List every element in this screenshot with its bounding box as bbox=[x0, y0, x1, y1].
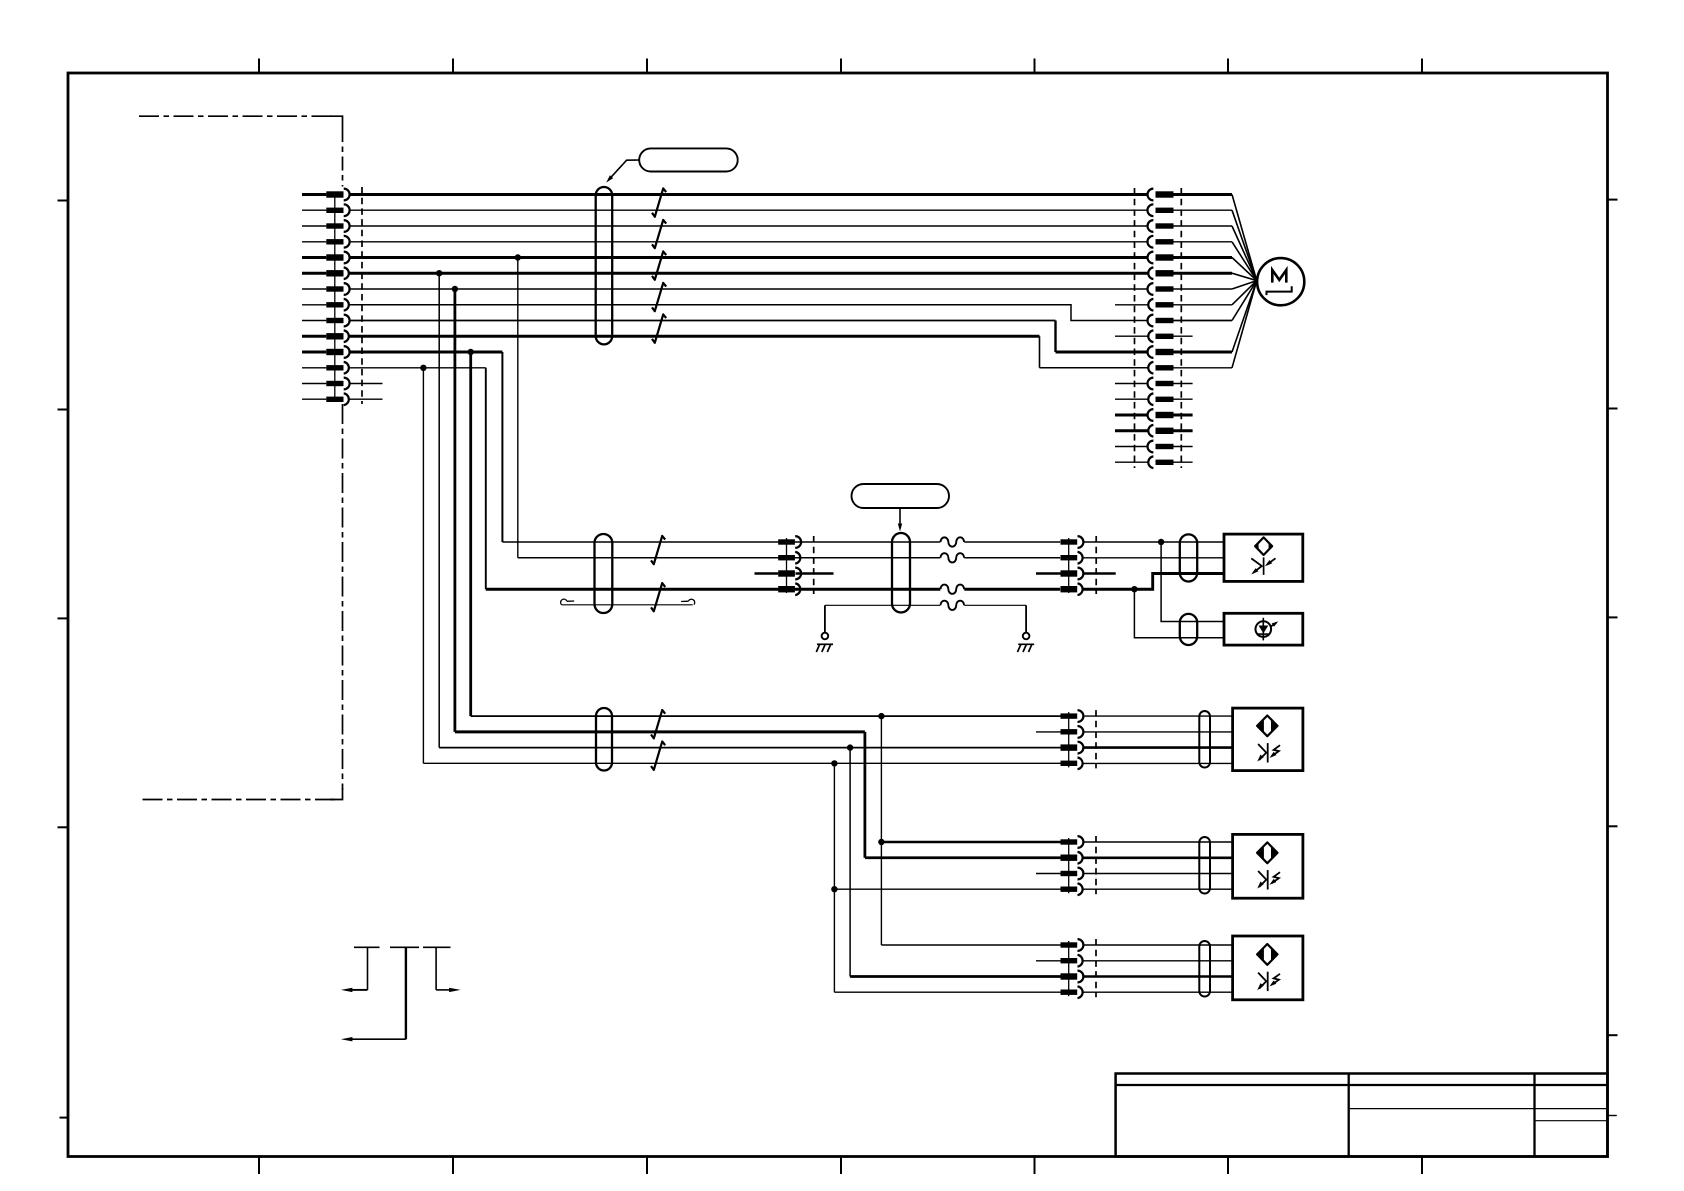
break mark top pair 1 bbox=[652, 188, 666, 216]
wire to sensor pin4 common bbox=[423, 762, 1060, 764]
CN2 spare pin stubs bbox=[1115, 305, 1193, 462]
wire CN1-3 to CN2-3 bbox=[349, 225, 1147, 227]
vertical drop x439 (net CN1-6) bbox=[438, 273, 440, 747]
junction CN4-4 branch bbox=[1131, 586, 1137, 592]
sensor PH1 (photoelectric sensor) bbox=[1233, 708, 1303, 771]
junction sensor1 pin3 branch bbox=[847, 744, 853, 750]
wire to SOL1 (-) horizontal bbox=[518, 557, 1060, 559]
wire to sensor3 pin1 bbox=[881, 944, 1060, 946]
stub CN1-13 bbox=[349, 383, 382, 385]
break mark top pair 3 bbox=[652, 251, 666, 279]
connector CN1 (enclosure side, 14 pins) bbox=[302, 187, 362, 405]
cable shield oval (bottom bundle) bbox=[596, 708, 612, 771]
CN3 pin3 stubs bbox=[755, 572, 779, 575]
sensor PH3 wires to box bbox=[1083, 945, 1232, 992]
stub CN1-14 bbox=[349, 398, 382, 400]
connector CN6 (sensor 2) bbox=[1061, 836, 1097, 895]
vertical drop x502 (net CN1-11 branch) bbox=[501, 352, 503, 542]
sensor PH1 cable oval bbox=[1199, 711, 1210, 768]
vertical drop x455 (net CN1-7) bbox=[453, 289, 456, 732]
wire to sensor2 pin4 bbox=[834, 888, 1060, 890]
sensor PH2 wires to box bbox=[1083, 842, 1232, 889]
wire to sensor1 pin3 bbox=[439, 747, 1060, 749]
enclosure boundary (dash-dot) bbox=[139, 116, 343, 799]
title block bbox=[1116, 1074, 1617, 1157]
vertical drop x881 (+V common) bbox=[880, 716, 882, 945]
cable shield oval (middle, right) bbox=[892, 533, 910, 613]
connector CN3 (4 pins) bbox=[778, 536, 814, 595]
cam timing symbol bbox=[341, 947, 461, 1041]
wire CN1-2 to CN2-2 bbox=[349, 209, 1147, 211]
balloon leader arrow bbox=[609, 160, 639, 180]
junction CN1-6 tap bbox=[436, 270, 442, 276]
label balloon (top cable) bbox=[639, 148, 738, 171]
break mark top pair 5 bbox=[652, 314, 666, 342]
connector CN4 (4 pins) bbox=[1061, 536, 1097, 595]
wire CN1-10 jog to CN2-12 bbox=[349, 335, 1039, 338]
sensor PH2 cable oval bbox=[1199, 837, 1210, 894]
wire CN1-8 jog to CN2-9 bbox=[349, 305, 1147, 321]
indicator box B2 (light emitter) bbox=[1224, 613, 1303, 645]
connector CN5 (sensor 1) spare stub bbox=[1036, 731, 1061, 733]
wire to sensor2 pin2 (thick) bbox=[455, 730, 865, 733]
break mark top pair 4 bbox=[652, 283, 666, 311]
cable shield oval (top bundle) bbox=[596, 187, 613, 344]
vertical drop x423 (net CN1-12) bbox=[422, 368, 424, 764]
wire to sensor3 pin4 bbox=[834, 991, 1060, 993]
cable shield oval (middle, left) bbox=[595, 534, 613, 613]
break mark middle pair 1 bbox=[651, 536, 665, 564]
wire CN1-12 horizontal bbox=[349, 367, 485, 369]
break mark bottom pair 1 bbox=[651, 710, 665, 738]
functional earth (right) bbox=[1025, 605, 1027, 632]
wavy break marks bbox=[941, 537, 965, 610]
junction on CN1-12 wire bbox=[420, 365, 426, 371]
sensor box B1 (retro-reflective sensor) bbox=[1224, 534, 1303, 581]
junction sensor2 pin4 bbox=[831, 886, 837, 892]
break mark bottom pair 2 bbox=[651, 742, 665, 770]
connector CN6 (sensor 2) spare stub bbox=[1036, 873, 1061, 875]
device cable oval (indicator) bbox=[1180, 614, 1197, 645]
sensor PH1 wires to box bbox=[1083, 716, 1232, 763]
junction CN1-7 tap bbox=[452, 286, 458, 292]
break mark top pair 2 bbox=[652, 220, 666, 248]
wire CN1-9 jog to CN2-11 bbox=[349, 320, 1055, 322]
shield drain with earth connections bbox=[825, 604, 1026, 606]
label balloon (middle cable) bbox=[852, 484, 950, 508]
junction CN4-1 branch bbox=[1158, 539, 1164, 545]
wire CN1-6 to CN2-6 bbox=[349, 272, 1147, 275]
vertical drop x518 (net CN1-5) bbox=[517, 258, 519, 558]
junction CN1-5 tap bbox=[515, 254, 521, 260]
wire CN1-7 to CN2-7 bbox=[349, 288, 1147, 290]
vertical drop x864 (thick) bbox=[864, 732, 867, 858]
sensor PH3 cable oval bbox=[1199, 941, 1210, 997]
vertical drop x471 (net CN1-11) bbox=[469, 352, 472, 716]
wire to sensor3 pin3 (thick) bbox=[850, 975, 1060, 978]
functional earth (left) bbox=[824, 605, 826, 632]
wire CN4-1 to valve box bbox=[1083, 541, 1224, 543]
wire CN1-4 to CN2-4 bbox=[349, 241, 1147, 243]
wire CN1-11 horizontal bbox=[349, 351, 502, 354]
connector CN7 (sensor 3) bbox=[1061, 939, 1097, 998]
junction sensor2 pin1 bbox=[878, 839, 884, 845]
wire to sensor1 pin1 bbox=[471, 715, 1061, 717]
break mark middle pair 2 bbox=[651, 583, 665, 611]
wire to SOL1 (+) horizontal bbox=[502, 541, 1060, 543]
connector CN7 (sensor 3) spare stub bbox=[1036, 960, 1061, 962]
motor leads fan bbox=[1174, 195, 1257, 368]
device cable oval (valve) bbox=[1180, 534, 1197, 581]
wire to SOL1 signal horizontal (thick) bbox=[486, 588, 1060, 591]
branch down to indicator row2 bbox=[1134, 589, 1224, 638]
wire CN4-4 thick with step up bbox=[1083, 574, 1224, 590]
vertical drop x850 bbox=[849, 748, 851, 977]
junction on CN1-11 wire bbox=[468, 349, 474, 355]
wire CN1-1 to CN2-1 bbox=[349, 193, 1147, 196]
sensor PH2 (photoelectric sensor) bbox=[1233, 834, 1303, 898]
branch down to indicator row1 bbox=[1161, 542, 1224, 622]
sensor PH3 (photoelectric sensor) bbox=[1233, 936, 1303, 1000]
wire CN4-2 to valve box bbox=[1083, 557, 1224, 559]
vertical drop x834 (0V common) bbox=[833, 763, 835, 992]
balloon leader arrow (middle) bbox=[899, 508, 901, 526]
junction sensor1 pin1 branch bbox=[878, 713, 884, 719]
motor M1 bbox=[1257, 258, 1304, 305]
connector CN5 (sensor 1) bbox=[1061, 710, 1097, 769]
junction sensor pin4 branch bbox=[831, 760, 837, 766]
wire CN1-5 to CN2-5 bbox=[349, 256, 1147, 259]
shield drain pigtail (left cable) bbox=[561, 599, 695, 605]
wire to sensor2 pin2 elbow bbox=[865, 856, 1061, 859]
CN4 pin3 stubs bbox=[1036, 572, 1061, 575]
vertical drop x486 (net CN1-12 branch) bbox=[485, 368, 487, 590]
connector CN2 (machine side, 18 pins) bbox=[1135, 188, 1182, 468]
wire to sensor2 pin1 bbox=[881, 841, 1060, 843]
